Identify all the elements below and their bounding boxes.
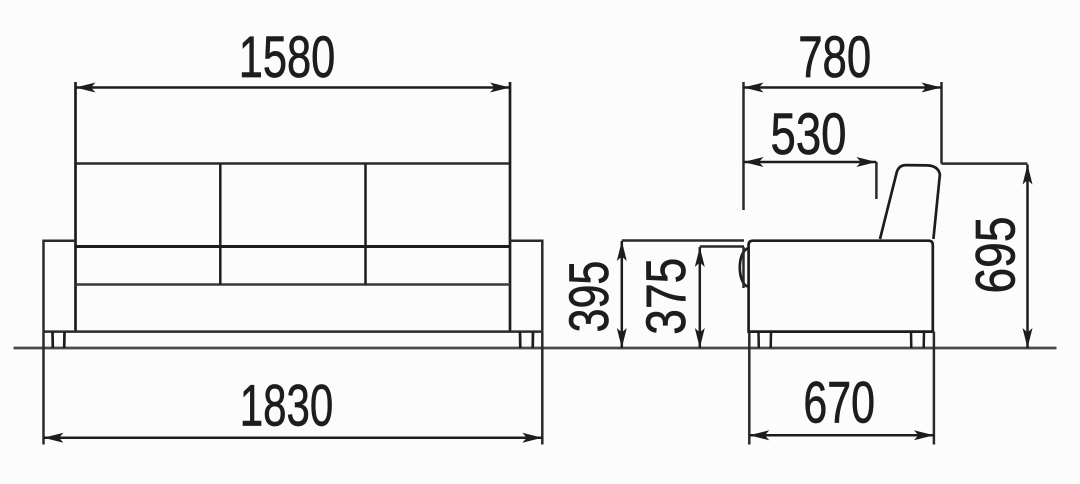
dimension 1830 extension left [42,332,45,445]
dimension 780 extension left lower segment [742,247,745,288]
sofa front view: backrest top edge [76,162,511,165]
dimension 530 extension right [875,162,878,199]
dimension 780 extension right [940,82,943,164]
sofa front view: right armrest [510,241,542,332]
dimension 780 line [744,86,942,89]
sofa front view: left armrest [44,241,76,332]
sofa side view: front bolster arc [740,249,749,287]
sofa side view: seat body [749,241,933,332]
dimension 1830 line [44,436,543,439]
svg-text:780: 780 [798,25,871,90]
dimension 670 extension right [933,332,936,445]
dimension 530 line [744,161,877,164]
sofa front view: right edge / extension line [509,82,512,332]
svg-text:695: 695 [963,217,1026,294]
dimension 1580 line [76,86,511,89]
dimension 780 extension left [742,82,745,210]
svg-text:1830: 1830 [240,374,333,439]
sofa front view: seat cushion bottom seam [76,283,511,286]
ground line [14,347,1057,350]
sofa front view: cushion divider 1 [219,164,222,285]
svg-text:670: 670 [803,370,875,435]
sofa front view: left edge / extension line [74,82,77,332]
dimension 670 line [749,434,934,437]
sofa front view: right leg [519,332,522,348]
sofa front view: seat cushion top seam [76,245,511,248]
svg-text:530: 530 [771,102,847,167]
dimension 695 line [1026,165,1029,349]
dimension 670 extension left [748,333,751,445]
dimension 1830 extension right [541,332,544,445]
sofa side view: front leg [757,332,760,348]
dimension 695 extension top [942,162,1028,165]
sofa front view: cushion divider 2 [364,164,367,285]
dimension 395 line [621,241,624,348]
sofa front view: left leg [51,332,54,348]
svg-text:1580: 1580 [239,25,335,90]
svg-text:375: 375 [634,258,697,335]
sofa front view: bottom edge [44,330,543,333]
sofa side view: tilted backrest [880,165,940,239]
svg-text:395: 395 [557,261,620,333]
dimension 375 extension top [700,245,744,248]
dimension 395 extension top [622,239,744,242]
sofa side view: rear leg [910,332,913,348]
dimension 375 line [699,247,702,348]
